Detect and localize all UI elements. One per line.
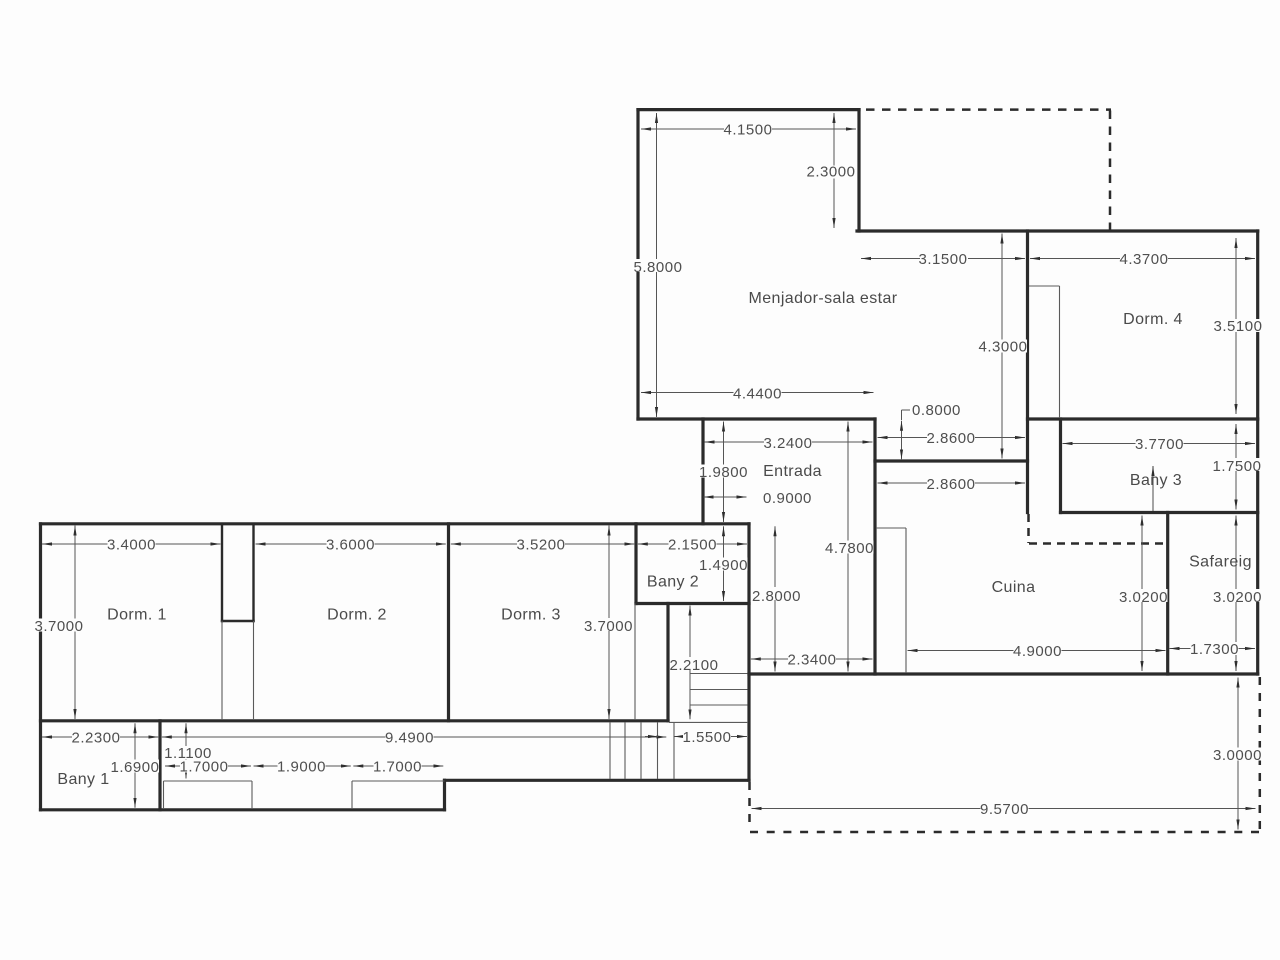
svg-text:Bany 2: Bany 2 xyxy=(647,574,699,591)
svg-text:3.6000: 3.6000 xyxy=(326,537,375,554)
svg-text:4.9000: 4.9000 xyxy=(1013,643,1062,660)
svg-text:1.7000: 1.7000 xyxy=(180,759,229,776)
svg-text:9.4900: 9.4900 xyxy=(385,730,434,747)
svg-text:2.2300: 2.2300 xyxy=(72,730,121,747)
svg-text:3.7000: 3.7000 xyxy=(35,618,84,635)
svg-text:2.3400: 2.3400 xyxy=(788,652,837,669)
svg-text:2.1500: 2.1500 xyxy=(668,537,717,554)
svg-text:2.8600: 2.8600 xyxy=(927,430,976,447)
svg-text:Safareig: Safareig xyxy=(1189,554,1252,571)
svg-text:4.1500: 4.1500 xyxy=(724,122,773,139)
svg-text:Entrada: Entrada xyxy=(763,463,822,480)
svg-text:1.9000: 1.9000 xyxy=(277,759,326,776)
svg-text:1.7000: 1.7000 xyxy=(373,759,422,776)
svg-text:5.8000: 5.8000 xyxy=(634,259,683,276)
svg-text:0.9000: 0.9000 xyxy=(763,490,812,507)
svg-text:3.1500: 3.1500 xyxy=(919,251,968,268)
svg-text:Dorm. 4: Dorm. 4 xyxy=(1123,311,1183,328)
svg-text:3.2400: 3.2400 xyxy=(764,435,813,452)
svg-text:3.0000: 3.0000 xyxy=(1213,747,1262,764)
svg-text:Cuina: Cuina xyxy=(992,579,1036,596)
svg-text:3.5200: 3.5200 xyxy=(517,537,566,554)
svg-text:2.8600: 2.8600 xyxy=(927,476,976,493)
svg-text:3.0200: 3.0200 xyxy=(1119,589,1168,606)
svg-text:4.4400: 4.4400 xyxy=(733,386,782,403)
svg-text:Dorm. 1: Dorm. 1 xyxy=(107,607,167,624)
svg-text:1.6900: 1.6900 xyxy=(111,759,160,776)
svg-text:1.7500: 1.7500 xyxy=(1213,458,1262,475)
svg-text:1.9800: 1.9800 xyxy=(699,464,748,481)
svg-text:4.3700: 4.3700 xyxy=(1120,251,1169,268)
svg-text:0.8000: 0.8000 xyxy=(912,402,961,419)
svg-text:3.5100: 3.5100 xyxy=(1214,318,1263,335)
svg-text:1.4900: 1.4900 xyxy=(699,557,748,574)
svg-text:2.8000: 2.8000 xyxy=(752,588,801,605)
svg-text:2.3000: 2.3000 xyxy=(807,164,856,181)
svg-text:3.7700: 3.7700 xyxy=(1135,436,1184,453)
svg-text:Bany 3: Bany 3 xyxy=(1130,472,1182,489)
svg-text:Bany 1: Bany 1 xyxy=(57,771,109,788)
svg-text:3.7000: 3.7000 xyxy=(584,618,633,635)
svg-text:9.5700: 9.5700 xyxy=(980,801,1029,818)
svg-text:Menjador-sala estar: Menjador-sala estar xyxy=(749,290,898,307)
svg-text:Dorm. 3: Dorm. 3 xyxy=(501,607,561,624)
svg-text:Dorm. 2: Dorm. 2 xyxy=(327,607,387,624)
svg-text:3.0200: 3.0200 xyxy=(1213,589,1262,606)
svg-text:2.2100: 2.2100 xyxy=(670,657,719,674)
svg-text:4.7800: 4.7800 xyxy=(825,540,874,557)
svg-text:1.5500: 1.5500 xyxy=(683,729,732,746)
svg-text:3.4000: 3.4000 xyxy=(107,537,156,554)
svg-text:4.3000: 4.3000 xyxy=(979,339,1028,356)
svg-text:1.7300: 1.7300 xyxy=(1190,641,1239,658)
